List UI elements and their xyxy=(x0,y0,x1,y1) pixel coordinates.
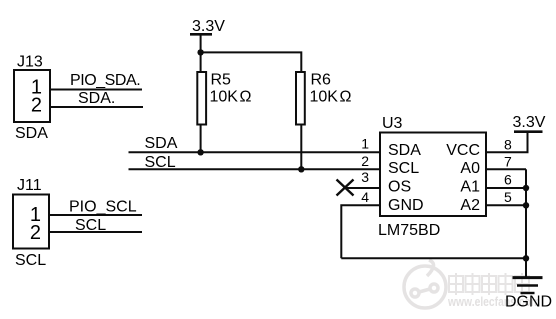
wire 3.3V rail to R6 xyxy=(201,52,302,72)
svg-text:7: 7 xyxy=(504,153,512,169)
junction dot R5-SDA xyxy=(197,149,203,155)
svg-text:4: 4 xyxy=(361,189,369,205)
wire R5 bottom xyxy=(200,125,202,153)
wire J13 pin 2 xyxy=(50,106,143,108)
power 3.3V (top left) bar xyxy=(190,33,212,36)
svg-text:3.3V: 3.3V xyxy=(513,114,546,131)
svg-text:DGND: DGND xyxy=(505,294,552,311)
svg-text:10KΩ: 10KΩ xyxy=(210,89,252,106)
svg-text:3.3V: 3.3V xyxy=(192,18,225,35)
svg-text:J11: J11 xyxy=(17,177,42,194)
ground DGND bars xyxy=(513,276,543,279)
wire ground bottom xyxy=(341,257,526,259)
svg-text:2: 2 xyxy=(361,153,369,169)
junction dot R6-SCL xyxy=(298,166,304,172)
resistor R6 xyxy=(296,72,305,125)
svg-text:GND: GND xyxy=(388,197,424,214)
svg-text:8: 8 xyxy=(504,136,512,152)
power 3.3V (right) bar xyxy=(514,130,543,133)
junction dot A1 xyxy=(523,185,529,191)
wire U3 pin 5 A2 xyxy=(486,204,526,206)
svg-text:VCC: VCC xyxy=(446,142,480,159)
junction dot A2 xyxy=(523,202,529,208)
wire U3 pin 7 A0 xyxy=(486,168,526,170)
no-connect X on pin 3 xyxy=(337,180,354,196)
svg-text:SDA: SDA xyxy=(145,135,178,152)
wire U3 pin 6 A1 xyxy=(486,187,526,189)
wire U3 pin 4 to ground xyxy=(341,205,380,258)
wire SDA bus xyxy=(129,151,381,153)
wire R6 bottom xyxy=(300,125,302,170)
wire J11 pin 2 xyxy=(49,231,142,233)
resistor R5 xyxy=(197,72,206,125)
IC U3 body xyxy=(380,133,486,217)
wire J13 pin 1 xyxy=(50,89,142,91)
junction dot ground bottom xyxy=(523,255,529,261)
svg-text:SDA: SDA xyxy=(388,142,421,159)
svg-text:A1: A1 xyxy=(460,179,480,196)
wire address net vertical xyxy=(525,169,527,277)
watermark logo circle xyxy=(404,260,446,308)
svg-text:1: 1 xyxy=(361,135,369,151)
svg-text:R6: R6 xyxy=(311,72,332,89)
connector J11 body xyxy=(13,195,49,249)
svg-text:2: 2 xyxy=(31,95,42,117)
junction dot 3.3V node xyxy=(197,49,203,55)
svg-text:SCL: SCL xyxy=(75,217,106,234)
svg-text:SCL: SCL xyxy=(388,160,419,177)
svg-text:R5: R5 xyxy=(211,72,232,89)
svg-text:SCL: SCL xyxy=(15,252,46,269)
svg-text:2: 2 xyxy=(30,222,41,244)
wire 3.3V stub xyxy=(200,35,202,52)
svg-text:5: 5 xyxy=(504,189,512,205)
svg-text:PIO_SCL: PIO_SCL xyxy=(69,199,137,216)
svg-text:J13: J13 xyxy=(17,54,43,71)
wire J11 pin 1 xyxy=(49,214,142,216)
svg-text:10KΩ: 10KΩ xyxy=(310,89,352,106)
svg-text:SDA.: SDA. xyxy=(78,90,115,107)
svg-text:SDA: SDA xyxy=(15,125,48,142)
wire SCL bus xyxy=(129,168,381,170)
svg-text:SCL: SCL xyxy=(145,154,176,171)
svg-text:3: 3 xyxy=(361,169,369,185)
svg-text:U3: U3 xyxy=(382,115,403,132)
svg-text:A2: A2 xyxy=(460,197,480,214)
svg-text:OS: OS xyxy=(388,179,411,196)
wire U3 pin 3 stub xyxy=(345,187,381,189)
wire U3 pin 8 VCC to 3.3V xyxy=(486,133,528,153)
wire R5 top xyxy=(200,52,202,72)
watermark glyph blocks xyxy=(449,273,529,295)
svg-text:PIO_SDA.: PIO_SDA. xyxy=(70,72,140,89)
svg-text:LM75BD: LM75BD xyxy=(378,222,440,239)
connector J13 body xyxy=(14,70,50,122)
svg-text:6: 6 xyxy=(504,172,512,188)
svg-text:A0: A0 xyxy=(460,160,480,177)
